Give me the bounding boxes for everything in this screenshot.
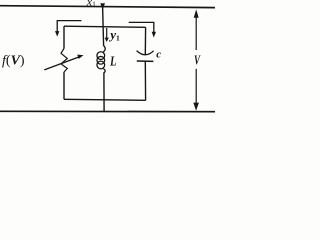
svg-text:f(V): f(V) [2, 53, 25, 68]
wire box top edge [64, 26, 146, 27]
wire right branch lower [144, 61, 146, 100]
voltage V dimension line upper [195, 13, 197, 50]
wire right loop current hook arrow [129, 22, 154, 32]
current y1 arrow [106, 28, 108, 38]
voltage V dimension line lower [195, 69, 197, 107]
wire left branch lower [63, 72, 65, 99]
capacitor c top plate (curved) [137, 51, 154, 55]
wire bottom rail [0, 110, 215, 112]
resistor variable arrow [44, 56, 80, 70]
svg-text:x1: x1 [86, 0, 96, 9]
wire left loop current hook arrow [57, 21, 81, 32]
node x1 current arrowhead [100, 3, 105, 10]
wire center branch upper [103, 7, 104, 46]
wire top rail [0, 6, 215, 8]
inductor L coil [103, 46, 105, 53]
resistor f(V) zigzag [61, 49, 67, 73]
svg-text:L: L [109, 53, 116, 68]
wire center branch lower [103, 73, 105, 112]
wire right branch upper [144, 27, 146, 55]
capacitor c bottom plate [137, 60, 154, 62]
svg-text:c: c [156, 48, 161, 60]
wire box bottom edge [64, 99, 146, 100]
wire left branch upper [63, 26, 65, 48]
